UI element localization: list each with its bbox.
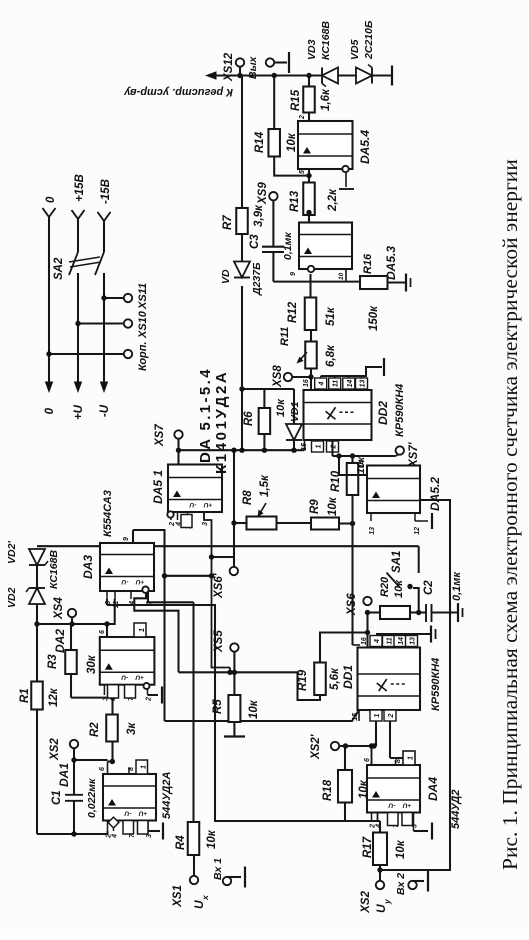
svg-text:12: 12	[414, 527, 421, 535]
svg-text:XS5: XS5	[213, 630, 225, 653]
svg-text:544УД2: 544УД2	[450, 790, 462, 829]
svg-text:11: 11	[333, 380, 340, 387]
svg-text:150к: 150к	[368, 305, 380, 331]
svg-text:12к: 12к	[48, 687, 60, 707]
svg-text:5,6к: 5,6к	[329, 667, 341, 690]
svg-text:DA5 1: DA5 1	[151, 470, 165, 504]
svg-text:Корп.: Корп.	[137, 341, 149, 371]
svg-text:КС168В: КС168В	[48, 550, 60, 589]
svg-text:10к: 10к	[395, 839, 407, 859]
svg-text:XS12: XS12	[223, 52, 235, 82]
svg-text:4: 4	[112, 834, 119, 839]
svg-text:Вх 1: Вх 1	[212, 858, 224, 880]
svg-text:XS6': XS6'	[213, 572, 225, 599]
svg-text:XS1: XS1	[172, 885, 184, 908]
svg-text:SA2: SA2	[53, 257, 65, 280]
svg-text:0: 0	[44, 407, 56, 414]
svg-text:10к: 10к	[286, 132, 298, 152]
svg-text:DA 5.1-5.4: DA 5.1-5.4	[197, 367, 214, 463]
svg-text:2: 2	[146, 697, 153, 702]
svg-text:DA4: DA4	[426, 777, 440, 801]
svg-text:14: 14	[398, 637, 405, 645]
svg-text:0,022мк: 0,022мк	[86, 778, 98, 818]
svg-text:10к: 10к	[206, 829, 218, 849]
svg-text:6: 6	[99, 630, 106, 634]
svg-text:VD: VD	[220, 269, 232, 284]
svg-text:КС168В: КС168В	[320, 21, 332, 60]
svg-text:6: 6	[99, 767, 106, 771]
svg-text:XS7: XS7	[154, 424, 166, 447]
svg-text:+U: +U	[203, 501, 212, 508]
svg-text:544УД2А: 544УД2А	[161, 772, 173, 819]
svg-text:2,2к: 2,2к	[327, 188, 339, 212]
svg-text:XS9: XS9	[257, 182, 269, 205]
svg-text:К регистр. устр-ву: К регистр. устр-ву	[123, 86, 233, 98]
svg-text:+U: +U	[135, 578, 144, 585]
svg-text:4: 4	[376, 824, 383, 829]
svg-text:DA5.4: DA5.4	[358, 130, 372, 164]
svg-text:R13: R13	[289, 190, 301, 212]
svg-text:2С210Б: 2С210Б	[363, 20, 375, 60]
svg-text:3к: 3к	[126, 722, 138, 735]
svg-text:-U: -U	[388, 802, 395, 809]
svg-text:-U: -U	[189, 501, 196, 508]
svg-text:DA5.3: DA5.3	[384, 246, 398, 280]
svg-text:R4: R4	[175, 835, 187, 850]
svg-text:VD3: VD3	[306, 39, 318, 60]
svg-text:R19: R19	[297, 669, 309, 691]
svg-text:Д237Б: Д237Б	[251, 262, 263, 296]
svg-text:1,6к: 1,6к	[320, 88, 332, 111]
svg-text:КР590КН4: КР590КН4	[430, 658, 442, 711]
svg-text:16: 16	[303, 379, 310, 387]
svg-text:1: 1	[141, 765, 148, 769]
svg-text:9: 9	[290, 272, 297, 276]
svg-text:0,1мк: 0,1мк	[451, 571, 463, 601]
svg-text:13: 13	[410, 637, 417, 645]
svg-text:XS8: XS8	[272, 365, 284, 388]
svg-text:2: 2	[388, 713, 395, 718]
svg-text:R6: R6	[243, 411, 255, 426]
svg-text:11: 11	[387, 637, 394, 644]
svg-text:R12: R12	[287, 301, 299, 323]
svg-text:0: 0	[45, 196, 57, 203]
svg-text:4: 4	[319, 381, 326, 386]
svg-text:13: 13	[360, 380, 367, 388]
svg-text:DA3: DA3	[81, 555, 95, 579]
svg-text:SA1: SA1	[391, 551, 403, 573]
svg-text:10к: 10к	[248, 699, 260, 719]
svg-text:R15: R15	[290, 89, 302, 111]
svg-text:DA5.2: DA5.2	[428, 477, 442, 511]
svg-text:К1401УД2А: К1401УД2А	[213, 370, 230, 474]
svg-text:10к: 10к	[275, 398, 287, 417]
svg-text:15: 15	[352, 713, 359, 721]
svg-text:-15В: -15В	[100, 179, 112, 204]
svg-text:13: 13	[369, 527, 376, 535]
svg-text:30к: 30к	[86, 654, 98, 674]
svg-text:14: 14	[359, 460, 366, 468]
svg-text:R9: R9	[309, 499, 321, 514]
svg-text:-U: -U	[121, 674, 128, 681]
svg-text:VD5: VD5	[349, 39, 361, 60]
svg-text:0,1мк: 0,1мк	[282, 232, 294, 260]
svg-text:C1: C1	[51, 790, 63, 805]
svg-text:XS11: XS11	[137, 283, 149, 310]
svg-text:К554СА3: К554СА3	[102, 490, 114, 537]
svg-text:R5: R5	[212, 699, 224, 714]
svg-text:4: 4	[374, 639, 381, 644]
svg-text:1,5к: 1,5к	[259, 474, 271, 497]
svg-text:-U: -U	[121, 578, 128, 585]
svg-text:R16: R16	[362, 253, 374, 274]
svg-text:XS2: XS2	[49, 738, 61, 761]
svg-text:-U: -U	[99, 404, 111, 417]
svg-text:15: 15	[301, 443, 308, 451]
svg-text:Рис. 1. Принципиальная схема э: Рис. 1. Принципиальная схема электронног…	[498, 159, 522, 870]
svg-text:9: 9	[123, 537, 130, 541]
svg-text:R10: R10	[330, 470, 342, 492]
svg-text:6: 6	[364, 758, 371, 762]
svg-text:Вх 2: Вх 2	[395, 873, 407, 895]
svg-text:C2: C2	[423, 580, 435, 595]
svg-text:R14: R14	[254, 131, 266, 153]
svg-text:R8: R8	[242, 490, 254, 505]
svg-text:XS4: XS4	[53, 597, 65, 620]
svg-text:VD2': VD2'	[6, 541, 18, 564]
svg-text:КР590КН4: КР590КН4	[394, 384, 406, 437]
svg-text:R7: R7	[222, 215, 234, 230]
svg-text:1: 1	[139, 628, 146, 632]
svg-text:+15В: +15В	[74, 174, 86, 202]
svg-text:3,9к: 3,9к	[253, 204, 265, 227]
svg-text:10: 10	[338, 272, 345, 280]
svg-text:6,8к: 6,8к	[325, 344, 337, 367]
svg-text:U: U	[374, 904, 388, 913]
svg-text:2: 2	[299, 115, 306, 120]
svg-text:VD1: VD1	[289, 401, 301, 422]
svg-text:1: 1	[316, 444, 323, 448]
svg-text:DA2: DA2	[53, 629, 67, 653]
svg-text:-U: -U	[124, 810, 131, 817]
svg-text:R2: R2	[89, 722, 101, 737]
svg-text:С3: С3	[249, 234, 261, 249]
svg-text:Вых: Вых	[247, 55, 259, 79]
svg-text:+U: +U	[138, 810, 147, 817]
svg-text:3: 3	[202, 522, 209, 526]
svg-text:14: 14	[347, 380, 354, 388]
svg-text:10к: 10к	[327, 496, 339, 516]
svg-text:5: 5	[299, 170, 306, 174]
svg-text:DD2: DD2	[376, 401, 390, 425]
svg-text:DA1: DA1	[57, 763, 71, 787]
svg-text:1: 1	[374, 713, 381, 717]
svg-text:XS2': XS2'	[310, 733, 322, 760]
svg-text:+U: +U	[135, 674, 144, 681]
svg-text:+U: +U	[402, 802, 411, 809]
svg-text:VD2: VD2	[6, 587, 18, 608]
svg-text:R3: R3	[47, 654, 59, 669]
svg-text:XS2: XS2	[360, 890, 372, 913]
svg-text:R20: R20	[379, 576, 391, 597]
svg-text:R17: R17	[362, 836, 374, 858]
svg-text:U: U	[192, 900, 206, 909]
svg-text:XS10: XS10	[137, 310, 149, 339]
svg-text:DD1: DD1	[341, 665, 355, 689]
svg-text:1: 1	[408, 756, 415, 760]
svg-text:R1: R1	[19, 688, 31, 703]
svg-text:R11: R11	[279, 327, 291, 346]
svg-text:XS7': XS7'	[408, 441, 420, 468]
svg-text:+U: +U	[73, 404, 85, 420]
svg-text:51к: 51к	[325, 306, 337, 326]
svg-text:R18: R18	[322, 779, 334, 801]
